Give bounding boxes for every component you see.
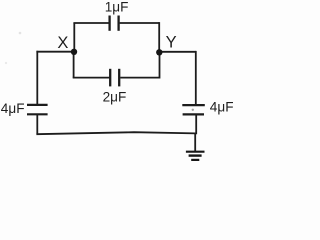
- node X junction dot: [71, 49, 77, 55]
- wire bottom horizontal: [36, 132, 195, 134]
- capacitor C4 (right 4uF) plates: [182, 105, 205, 114]
- wire middle branch left of C2: [73, 77, 110, 79]
- wire top branch left of C1: [73, 22, 109, 24]
- ground symbol: [186, 152, 205, 160]
- wire top branch right of C1: [120, 22, 160, 24]
- svg-text:Y: Y: [166, 34, 177, 52]
- faint scan speck: [5, 62, 7, 64]
- capacitor C3 (left 4uF) plates: [27, 105, 48, 114]
- wire middle branch right of C2: [120, 77, 159, 79]
- wire node Y to right: [160, 51, 196, 53]
- wire right vertical upper: [195, 51, 197, 105]
- wire X up to top branch: [73, 23, 75, 52]
- capacitor C1 (1uF) plates: [110, 16, 119, 31]
- faint scan speck: [19, 32, 22, 35]
- capacitor C2 (2uF) plates: [110, 69, 119, 87]
- svg-text:4μF: 4μF: [1, 101, 25, 116]
- node Y junction dot: [156, 49, 162, 55]
- wire X down to middle branch: [73, 52, 75, 78]
- svg-text:2μF: 2μF: [103, 90, 127, 105]
- svg-text:X: X: [57, 34, 68, 52]
- wire left vertical upper: [36, 51, 38, 104]
- wire left vertical lower: [36, 114, 38, 134]
- wire top branch down to node Y: [158, 22, 160, 52]
- faint scan speck: [192, 109, 194, 111]
- wire node Y down to middle branch: [159, 53, 161, 79]
- wire right vertical lower to ground: [195, 114, 196, 151]
- svg-text:1μF: 1μF: [105, 0, 129, 15]
- svg-text:4μF: 4μF: [210, 100, 233, 115]
- wire node X to left: [36, 51, 74, 53]
